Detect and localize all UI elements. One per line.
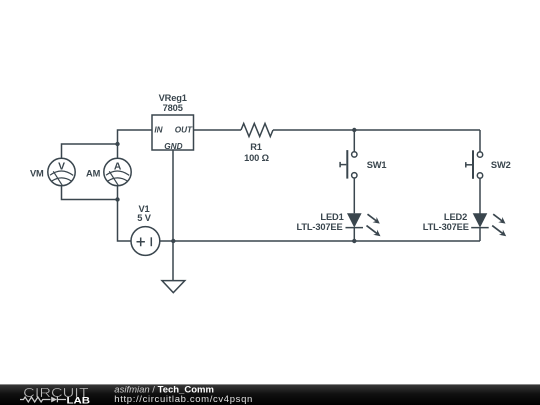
svg-text:7805: 7805 [163, 103, 183, 113]
svg-text:SW2: SW2 [491, 160, 511, 170]
svg-text:R1: R1 [250, 142, 262, 152]
svg-text:http://circuitlab.com/cv4psqn: http://circuitlab.com/cv4psqn [114, 394, 252, 405]
svg-text:GND: GND [164, 142, 182, 151]
svg-text:VM: VM [30, 168, 44, 178]
svg-text:LTL-307EE: LTL-307EE [423, 222, 469, 232]
svg-text:OUT: OUT [175, 126, 193, 135]
svg-text:AM: AM [86, 168, 101, 178]
svg-text:VReg1: VReg1 [159, 93, 187, 103]
svg-text:LED1: LED1 [320, 212, 343, 222]
svg-text:100 Ω: 100 Ω [244, 153, 269, 163]
svg-text:5 V: 5 V [137, 213, 151, 223]
svg-text:A: A [114, 162, 122, 173]
svg-text:V: V [58, 162, 65, 173]
svg-text:LAB: LAB [67, 395, 91, 405]
svg-text:LED2: LED2 [444, 212, 467, 222]
svg-text:LTL-307EE: LTL-307EE [296, 222, 342, 232]
svg-text:SW1: SW1 [367, 160, 387, 170]
svg-text:IN: IN [154, 126, 163, 135]
